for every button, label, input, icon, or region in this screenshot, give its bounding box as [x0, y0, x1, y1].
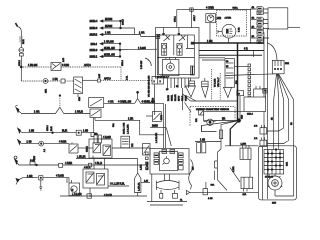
- module SB: [244, 97, 266, 116]
- wire net mid-right: [195, 121, 221, 142]
- wiper motor M2: [156, 174, 179, 198]
- S-bend wire: [186, 142, 259, 201]
- svg-text:MJ/GN: MJ/GN: [105, 26, 113, 28]
- svg-text:15A: 15A: [94, 133, 98, 136]
- svg-text:10/16.4: 10/16.4: [90, 21, 98, 23]
- wire 1 BR run: [94, 118, 164, 135]
- svg-text:10/1P.2: 10/1P.2: [90, 35, 98, 37]
- svg-text:L 1R.1R: L 1R.1R: [77, 157, 86, 159]
- relay G: [230, 166, 253, 196]
- inline connector: [61, 79, 65, 83]
- svg-text:10/16.3: 10/16.3: [90, 50, 98, 52]
- clock feed splice: [43, 79, 48, 84]
- bus splice: [120, 21, 122, 28]
- svg-text:W BL/SB: W BL/SB: [215, 78, 217, 87]
- wire dashed feed to ignition: [83, 73, 153, 82]
- svg-text:1 SB: 1 SB: [208, 198, 213, 200]
- svg-text:P/N: P/N: [196, 118, 198, 122]
- connector terminal row3: [18, 140, 23, 145]
- svg-text:BL/SB: BL/SB: [168, 94, 170, 101]
- coil L2: [177, 44, 182, 56]
- svg-text:BL/R: BL/R: [51, 126, 53, 131]
- svg-text:1 GR: 1 GR: [207, 41, 213, 43]
- key cylinder: [162, 60, 179, 76]
- connector block under ignition: [152, 77, 164, 144]
- switch S4: [146, 112, 161, 122]
- relay F left of fusebox: [240, 143, 251, 177]
- lamp E1: [19, 48, 24, 81]
- svg-text:1 SB: 1 SB: [200, 140, 205, 142]
- relay block C: [83, 167, 108, 188]
- connector pair C1: [257, 7, 268, 15]
- suppressor E2b: [202, 78, 208, 97]
- wire L 1R.1R: [76, 156, 138, 159]
- suppressor E2c: [224, 87, 232, 97]
- svg-text:6/30.1: 6/30.1: [175, 15, 177, 22]
- node splice S1: [20, 66, 22, 68]
- svg-text:1 GR: 1 GR: [105, 33, 111, 35]
- svg-text:SB.GN: SB.GN: [175, 94, 177, 101]
- connector terminal row1: [15, 105, 21, 113]
- svg-text:1 BR: 1 BR: [53, 79, 58, 81]
- svg-text:C-L 1.25 R.BL: C-L 1.25 R.BL: [110, 184, 125, 186]
- svg-text:BL/R: BL/R: [23, 39, 25, 44]
- svg-text:50/B+: 50/B+: [233, 7, 239, 9]
- wire relayC right: [90, 184, 129, 197]
- svg-text:1.25R: 1.25R: [241, 143, 247, 145]
- wire row3 right: [44, 142, 69, 144]
- wire into rear box: [225, 129, 259, 146]
- rear fuse/relay box: [259, 146, 297, 200]
- svg-text:30A: 30A: [112, 123, 115, 127]
- svg-text:MJ/BL.GN: MJ/BL.GN: [104, 55, 115, 57]
- interior fuse panel: [225, 59, 235, 88]
- ignition switch assembly: [156, 28, 200, 92]
- connector pair C3: [257, 26, 269, 34]
- svg-text:1.25R: 1.25R: [233, 166, 235, 172]
- svg-text:M: M: [72, 190, 74, 192]
- dashed boundary verticals: [212, 69, 221, 100]
- pin stub wires top: [175, 10, 197, 28]
- svg-text:4 P.BR: 4 P.BR: [65, 163, 72, 165]
- connector terminal row4: [14, 156, 19, 165]
- svg-text:1 GR: 1 GR: [27, 176, 33, 178]
- switch S3: [69, 143, 78, 154]
- arrow rows group 1: [90, 18, 156, 36]
- dashed sensor box: [190, 107, 235, 127]
- svg-text:P/N: P/N: [132, 143, 134, 147]
- fuse F2: [220, 130, 223, 139]
- fuse holder box right: [272, 60, 290, 74]
- svg-text:4 P.GR: 4 P.GR: [59, 142, 67, 144]
- wire S2 right: [104, 91, 164, 103]
- wire relay links: [94, 158, 105, 169]
- switch contacts: [164, 35, 171, 41]
- svg-text:1 SB: 1 SB: [83, 131, 88, 133]
- svg-text:1 BR: 1 BR: [128, 118, 133, 120]
- splice heavy node: [202, 114, 244, 146]
- connector terminal row2: [18, 128, 23, 133]
- narrow boxes NB: [197, 143, 206, 153]
- suppressor E2a: [186, 78, 196, 97]
- connector pair E2: [254, 138, 288, 147]
- relay K2: [143, 144, 150, 156]
- wire row2 right: [101, 137, 111, 139]
- svg-text:16A: 16A: [243, 193, 247, 196]
- battery feed B+: [217, 7, 247, 43]
- wire fan from fuse box: [225, 74, 293, 146]
- inline connector row2: [76, 130, 94, 135]
- wiper assembly box: [147, 149, 189, 175]
- rear box grid: [264, 149, 289, 174]
- svg-text:BA/BL 4 GR: BA/BL 4 GR: [123, 122, 126, 134]
- svg-text:2 SB: 2 SB: [239, 27, 241, 32]
- wire bottom long: [60, 194, 147, 198]
- svg-text:6/26.4: 6/26.4: [247, 114, 254, 116]
- svg-text:4/30.7: 4/30.7: [194, 14, 196, 21]
- svg-text:1 GR: 1 GR: [34, 112, 40, 114]
- svg-text:B 50 SW: B 50 SW: [141, 61, 143, 69]
- svg-text:1 GR.GN: 1 GR.GN: [104, 42, 114, 44]
- diode module D1: [51, 63, 61, 71]
- svg-text:2 R: 2 R: [254, 126, 258, 128]
- svg-text:30A: 30A: [211, 184, 215, 187]
- left terminal column: [146, 152, 149, 170]
- bus splice 2: [119, 44, 121, 57]
- svg-text:6/26.2: 6/26.2: [87, 145, 89, 152]
- svg-text:6/30.5: 6/30.5: [122, 18, 124, 25]
- svg-text:1 GR.R: 1 GR.R: [75, 112, 83, 114]
- svg-text:A/47.8: A/47.8: [84, 64, 91, 67]
- wire bottom center: [147, 174, 187, 205]
- svg-text:10/16: 10/16: [152, 126, 159, 128]
- sensor inside dashed: [196, 110, 204, 122]
- svg-text:14/2: 14/2: [217, 18, 222, 20]
- rear wiper motor M3: [268, 174, 283, 190]
- svg-text:A/47.8: A/47.8: [104, 77, 111, 80]
- wire top feed: [177, 8, 251, 12]
- top-right junction box: [268, 8, 288, 29]
- wire row2: [23, 124, 77, 133]
- wire arc into fuse box: [268, 43, 278, 60]
- svg-text:1 B.GN: 1 B.GN: [138, 48, 146, 50]
- svg-text:R/VO: R/VO: [179, 96, 181, 101]
- fuse F1: [91, 133, 101, 144]
- fuse 30A: [237, 91, 244, 121]
- connector terminal top-left: [16, 23, 23, 48]
- svg-text:6 R: 6 R: [244, 49, 248, 51]
- wire S3 to relay block: [78, 147, 93, 149]
- wire relayA right: [112, 147, 150, 149]
- svg-text:4 OR/R: 4 OR/R: [206, 8, 214, 10]
- svg-text:10/8.4: 10/8.4: [91, 44, 98, 46]
- bold feed wires: [193, 43, 264, 121]
- svg-text:4 OR: 4 OR: [108, 101, 114, 103]
- internal links: [157, 35, 194, 74]
- terminal strip column: [235, 64, 251, 99]
- svg-text:L-R BL/GN: L-R BL/GN: [156, 132, 158, 143]
- wire feeds to connectors: [251, 9, 256, 57]
- connector block B: [121, 136, 134, 148]
- connector on bus: [263, 89, 267, 94]
- svg-text:4 R.GR: 4 R.GR: [56, 176, 64, 178]
- ground bus: [190, 100, 237, 102]
- connector pair E1: [254, 125, 284, 134]
- svg-text:MJ/GN: MJ/GN: [105, 19, 113, 21]
- arrow rows group 2: [90, 42, 158, 66]
- svg-text:6 P.BR: 6 P.BR: [62, 65, 69, 67]
- svg-text:10/16.1: 10/16.1: [90, 57, 98, 59]
- svg-text:4 BL.R: 4 BL.R: [95, 163, 102, 165]
- svg-text:MJ/BL.GN: MJ/BL.GN: [104, 48, 115, 50]
- connector pentagon: [135, 159, 151, 197]
- svg-text:4 BL.R: 4 BL.R: [84, 167, 91, 169]
- connector pair C4: [257, 36, 269, 44]
- connector D: [254, 86, 266, 99]
- svg-text:SB/TEMP GIVARE TEMP SENSOR: SB/TEMP GIVARE TEMP SENSOR: [196, 108, 229, 111]
- connector pair C2: [257, 17, 268, 25]
- connector terminal row5: [16, 179, 19, 185]
- svg-text:BL/R: BL/R: [62, 131, 67, 133]
- connector into ignition: [156, 34, 160, 38]
- sensor connector: [39, 176, 67, 190]
- wire branch down from S2: [95, 118, 130, 135]
- wire diag from ignition: [183, 88, 197, 110]
- wire row4: [19, 155, 147, 167]
- wire row5: [19, 176, 37, 179]
- relay K1: [74, 77, 83, 101]
- wire dotted feed row y67: [21, 67, 121, 81]
- svg-text:BR: BR: [222, 119, 226, 121]
- svg-text:1 SB: 1 SB: [29, 131, 34, 133]
- svg-text:10/16: 10/16: [153, 97, 155, 103]
- svg-text:4 BT/R: 4 BT/R: [225, 18, 232, 20]
- svg-text:1 BR.GN: 1 BR.GN: [28, 65, 38, 67]
- svg-text:6/26.1: 6/26.1: [47, 124, 49, 131]
- horn H1: [39, 141, 46, 152]
- fuse element: [191, 66, 195, 75]
- wire row3: [23, 142, 39, 144]
- wire stub into sensor box: [185, 103, 192, 113]
- svg-text:VHV BA.T: VHV BA.T: [217, 77, 220, 87]
- svg-text:L 4 R.OR: L 4 R.OR: [72, 194, 82, 196]
- washer motor sensor: [204, 111, 244, 125]
- wire row y81: [21, 80, 73, 82]
- svg-text:1.25R.BL: 1.25R.BL: [138, 181, 140, 191]
- svg-text:L-R 1.25R: L-R 1.25R: [128, 124, 130, 134]
- relay block A: [87, 139, 113, 158]
- svg-text:6/30.4: 6/30.4: [122, 59, 124, 66]
- coil L1: [162, 44, 167, 56]
- wire right edge: [264, 27, 300, 199]
- switch S2 mid-left: [89, 98, 104, 118]
- svg-text:4 R.OR: 4 R.OR: [104, 195, 112, 197]
- pump P1: [67, 178, 80, 196]
- svg-text:VO 850 SW 6/30 B.GN: VO 850 SW 6/30 B.GN: [149, 75, 151, 97]
- svg-text:6/15.2: 6/15.2: [19, 59, 21, 66]
- svg-text:2 R: 2 R: [254, 138, 258, 140]
- central column wires: [150, 104, 171, 148]
- ignition pins bottom: [168, 78, 189, 101]
- svg-text:4 OR/BL.GN: 4 OR/BL.GN: [118, 101, 131, 103]
- wire to S2: [21, 95, 90, 114]
- svg-text:1 SB: 1 SB: [27, 142, 32, 144]
- clock U1: [206, 14, 222, 43]
- svg-text:GR/BL: GR/BL: [172, 94, 174, 101]
- svg-text:10/16.3: 10/16.3: [90, 28, 98, 30]
